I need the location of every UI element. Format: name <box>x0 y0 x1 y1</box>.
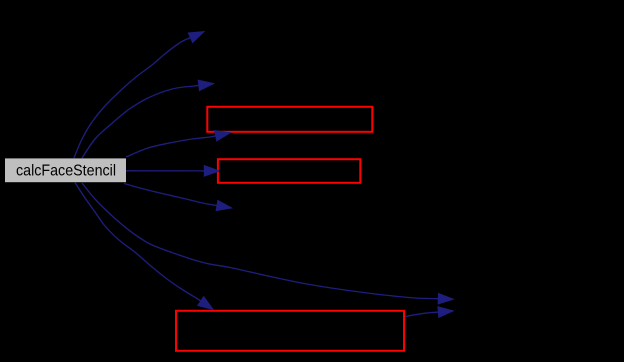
edge 1 calcFaceStencil->top node <box>74 32 204 159</box>
edge 3 calcFaceStencil->box1 <box>126 131 231 158</box>
node calcFaceStencil <box>5 158 126 182</box>
edge 8 box3->right node <box>405 307 454 318</box>
edge 7 calcFaceStencil->right node <box>82 183 454 304</box>
edge 4 calcFaceStencil->box2 <box>126 166 220 177</box>
node box2 (red outline, hidden label) <box>218 159 360 183</box>
node box1 (red outline, hidden label) <box>207 107 372 132</box>
edge 5 calcFaceStencil->fifth node <box>124 184 232 211</box>
edge 2 calcFaceStencil->second node <box>82 80 214 158</box>
edge 6 calcFaceStencil->box3 <box>75 183 213 310</box>
node box3 (red outline, hidden label) <box>176 311 404 351</box>
svg-text:calcFaceStencil: calcFaceStencil <box>16 163 116 180</box>
